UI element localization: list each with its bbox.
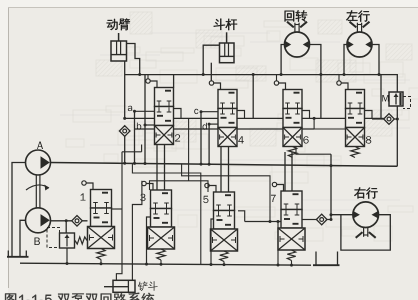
wire motor left	[331, 214, 353, 216]
wire valve4 right step	[237, 111, 245, 119]
bucket cylinder	[113, 280, 135, 292]
relief valve M	[389, 92, 403, 106]
wire arm cyl left port	[203, 45, 219, 74]
label A	[37, 141, 43, 149]
spring valve 7	[287, 250, 295, 261]
wire bus drop x381	[380, 75, 382, 119]
rail junction dots	[66, 262, 69, 265]
label swing (hui-zhuan)	[285, 10, 308, 21]
figure caption	[5, 293, 155, 300]
pump B delivery line	[51, 220, 88, 222]
label M	[382, 95, 388, 102]
wire left travel left port	[344, 45, 347, 75]
wire pilot riser valve8	[338, 75, 340, 81]
wire bus drop x253	[252, 75, 254, 119]
bleed-through watermark	[204, 36, 244, 46]
pilot cap valve 1	[82, 181, 86, 185]
feed rail (a-level)	[125, 117, 384, 119]
rail jog valve8	[314, 118, 345, 129]
spring valve 6	[288, 147, 296, 158]
spring valve 8	[351, 147, 359, 158]
relief spring W	[75, 237, 87, 244]
valve 4	[218, 90, 237, 109]
relief valve lower	[60, 233, 75, 248]
relief pilot dashed box	[47, 228, 60, 248]
pump shaft	[35, 175, 37, 208]
wire mid riser x188	[188, 118, 190, 180]
tank left	[7, 256, 29, 258]
wire pilot riser valve6	[276, 75, 278, 81]
wire motor loop	[341, 215, 390, 250]
wire bucket second	[132, 181, 142, 280]
page frame	[8, 7, 10, 288]
suction line pump A	[12, 163, 26, 257]
pilot cap valve 7	[272, 182, 276, 186]
tank return rail	[20, 263, 311, 265]
wire pilot riser valve2	[147, 75, 149, 79]
wire c-riser	[200, 112, 202, 164]
junction dots on upper bus	[138, 73, 141, 76]
spring valve 1	[97, 249, 105, 260]
swing motor	[285, 32, 310, 57]
wire valve8 to check	[372, 118, 384, 120]
label bucket (chan-dou)	[138, 281, 158, 291]
wire valve7 feed	[245, 221, 281, 223]
boom cylinder	[111, 41, 127, 61]
rail dot near valve8	[313, 117, 316, 120]
label right-travel (you-xing)	[354, 187, 377, 198]
pump A	[26, 150, 51, 175]
wire valve6 to valve7	[284, 152, 286, 191]
tank right	[313, 264, 340, 266]
wire boom cyl right port	[127, 44, 140, 75]
wire valve1 right to bucket	[112, 208, 123, 210]
label boom (dong-bi)	[107, 18, 130, 30]
wire bus to valve2 top	[173, 75, 175, 88]
spring valve 3	[157, 249, 165, 260]
pump A delivery rail	[50, 163, 397, 167]
wire valve2 to valve3	[156, 145, 158, 191]
pilot cap valve 6	[274, 81, 278, 85]
check valve near valve8	[384, 114, 395, 125]
wire relief to tank rail	[66, 248, 68, 264]
staircase wire s4	[182, 164, 270, 222]
junction pump B	[65, 219, 68, 222]
wire to relief	[65, 221, 67, 233]
suction line pump B	[20, 220, 26, 256]
valve 2	[155, 88, 174, 107]
check valve right travel	[316, 214, 327, 225]
pilot cap valve 2	[146, 79, 150, 83]
valve 1	[91, 190, 112, 209]
spring valve 5	[220, 251, 228, 262]
staircase valve6 bottom	[296, 147, 331, 155]
pump B	[26, 208, 51, 233]
wire valve8 right step	[365, 111, 373, 120]
wire boom cyl bottom port	[124, 61, 126, 118]
relief M pilot dashes	[403, 97, 411, 109]
wire pump A riser lower	[124, 136, 126, 163]
wire bus drop x320	[320, 75, 322, 119]
node c	[194, 109, 198, 114]
wire valve3 left	[147, 217, 151, 264]
left travel motor	[347, 32, 372, 57]
pilot cap valve 4	[209, 81, 213, 85]
label arm (dou-gan)	[214, 19, 237, 30]
wire right travel feed drop	[330, 154, 332, 219]
staircase wire s1	[141, 145, 143, 152]
rail dot left	[123, 117, 126, 120]
arm cylinder	[220, 43, 235, 63]
wire left travel right port	[372, 45, 379, 75]
valve 8	[346, 90, 365, 109]
wire valve7 left drop	[277, 222, 279, 266]
pilot cap valve 5	[205, 183, 209, 187]
wire valve6 right step	[302, 111, 310, 119]
label left-travel (zuo-xing)	[346, 10, 370, 21]
wire valve7 to check	[302, 219, 316, 221]
spring-to-rail stubs	[100, 260, 102, 264]
junction at check	[396, 118, 399, 121]
rotation arrow	[26, 185, 49, 190]
wire d-riser	[208, 124, 210, 164]
wire valve5 left	[211, 219, 214, 265]
wire swing motor left port	[281, 45, 285, 75]
wire b-riser	[144, 75, 146, 164]
node b	[137, 123, 141, 130]
pilot cap valve 8	[337, 81, 341, 85]
pilot cap valve 3	[142, 181, 146, 185]
valve 6	[283, 90, 302, 109]
node a	[128, 106, 132, 111]
wire bucket feed riser	[116, 152, 122, 280]
staircase wire s2	[132, 163, 200, 264]
valve 3	[151, 190, 172, 209]
staircase wire s3	[150, 181, 209, 192]
wire valve4 to valve5	[220, 147, 222, 193]
check valve pump B	[72, 216, 83, 227]
valve 5	[214, 192, 235, 211]
right travel motor	[353, 202, 379, 228]
upper feed bus	[125, 75, 398, 92]
wire a-riser	[134, 111, 136, 163]
check valve on pump A riser	[119, 126, 130, 137]
wire valve2 right step	[174, 109, 182, 119]
wire relief M down	[396, 106, 398, 166]
valve 7	[281, 191, 302, 210]
rail dots	[123, 162, 126, 165]
label B	[34, 237, 39, 245]
wire swing motor right port	[309, 45, 321, 75]
return rail (b-level)	[135, 128, 315, 130]
wire arm cyl bottom to pilot	[210, 63, 212, 81]
node d	[202, 123, 206, 130]
